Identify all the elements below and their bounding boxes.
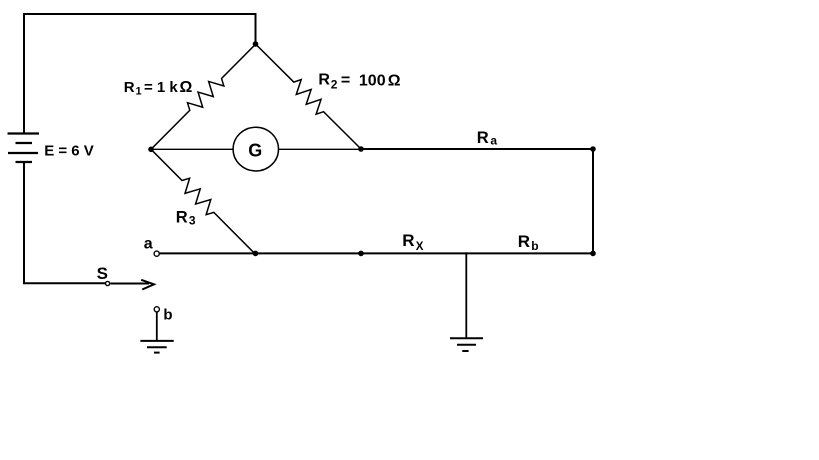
label Rb (518, 232, 539, 253)
svg-text:b: b (531, 239, 538, 253)
label Ra (477, 129, 498, 148)
wire: left node to galvanometer (151, 148, 234, 150)
wire: top horizontal run and drop to bridge top node (23, 14, 256, 44)
battery E (two-cell symbol) (8, 134, 40, 163)
svg-text:a: a (144, 236, 153, 253)
label Rx (402, 231, 423, 253)
svg-text:R: R (518, 232, 530, 251)
svg-text:b: b (163, 306, 172, 323)
ground (below contact b) (140, 341, 173, 353)
switch S blade arrow (111, 280, 155, 290)
resistor R1 (zigzag on diagonal from left node to top node) (146, 40, 260, 155)
svg-text:100: 100 (359, 72, 386, 89)
contact b (open circle) (154, 307, 159, 312)
svg-text:E = 6 V: E = 6 V (44, 142, 94, 159)
svg-text:X: X (416, 241, 424, 253)
svg-text:2: 2 (331, 77, 338, 91)
label R2 = 100 Ohm (318, 72, 400, 92)
galvanometer G (233, 127, 278, 171)
svg-text:Ω: Ω (180, 79, 193, 96)
svg-text:R: R (402, 231, 414, 250)
node: bottom right corner junction (590, 251, 596, 257)
svg-text:1: 1 (136, 85, 142, 97)
switch S contact (open circle) (106, 281, 110, 285)
label R1 = 1 kOhm (124, 79, 193, 97)
svg-text:S: S (97, 264, 108, 283)
wire: battery positive lead up the left side (23, 14, 25, 134)
svg-text:G: G (248, 140, 262, 160)
node: bottom middle junction (358, 251, 364, 257)
node: bridge right junction (358, 146, 364, 152)
node: bridge left junction (148, 147, 154, 153)
svg-text:R: R (318, 72, 330, 89)
node: top right corner junction (590, 146, 596, 152)
resistor R2 (zigzag on diagonal from top node to right node) (251, 39, 366, 154)
wire: contact b down to ground (156, 312, 158, 341)
svg-text:3: 3 (189, 214, 196, 228)
wire Ra: right node across to far right (361, 148, 593, 150)
svg-text:a: a (490, 133, 497, 147)
node: R3 bottom junction (253, 251, 259, 257)
ground (centre, below Rx wire) (450, 338, 483, 351)
label R3 (176, 209, 196, 228)
svg-text:R: R (477, 129, 489, 147)
wire: bottom run from contact a to far right (Rx / Rb) (159, 252, 593, 254)
svg-text:R: R (176, 209, 188, 227)
svg-text:Ω: Ω (388, 72, 401, 89)
svg-text:R: R (124, 79, 135, 96)
wire: battery negative lead down and across to switch (24, 161, 106, 283)
resistor R3 (zigzag on diagonal from left node down to bottom wire) (146, 144, 260, 259)
svg-text:= 1 k: = 1 k (144, 79, 178, 96)
contact a (open circle) (154, 251, 159, 256)
node: bridge top junction (253, 41, 259, 47)
wire: far right vertical (592, 148, 594, 254)
wire: ground stub from bottom wire (465, 252, 467, 338)
wire: galvanometer to right node (278, 148, 361, 150)
svg-text:=: = (341, 72, 350, 89)
